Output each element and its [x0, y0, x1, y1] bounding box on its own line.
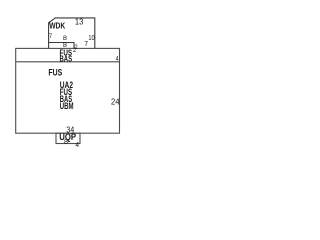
svg-text:WDK: WDK — [49, 22, 65, 31]
svg-text:FUS: FUS — [48, 67, 62, 78]
svg-text:8: 8 — [63, 42, 67, 49]
svg-text:BAS: BAS — [60, 55, 73, 64]
svg-text:4: 4 — [75, 142, 79, 149]
svg-text:13: 13 — [75, 17, 84, 26]
svg-text:8: 8 — [64, 139, 68, 146]
svg-text:UBM: UBM — [60, 101, 74, 111]
svg-text:34: 34 — [66, 126, 74, 135]
svg-text:24: 24 — [111, 97, 120, 106]
svg-text:10: 10 — [88, 33, 94, 42]
svg-text:2: 2 — [73, 47, 77, 54]
svg-text:7: 7 — [49, 33, 52, 40]
svg-text:7: 7 — [84, 41, 88, 48]
